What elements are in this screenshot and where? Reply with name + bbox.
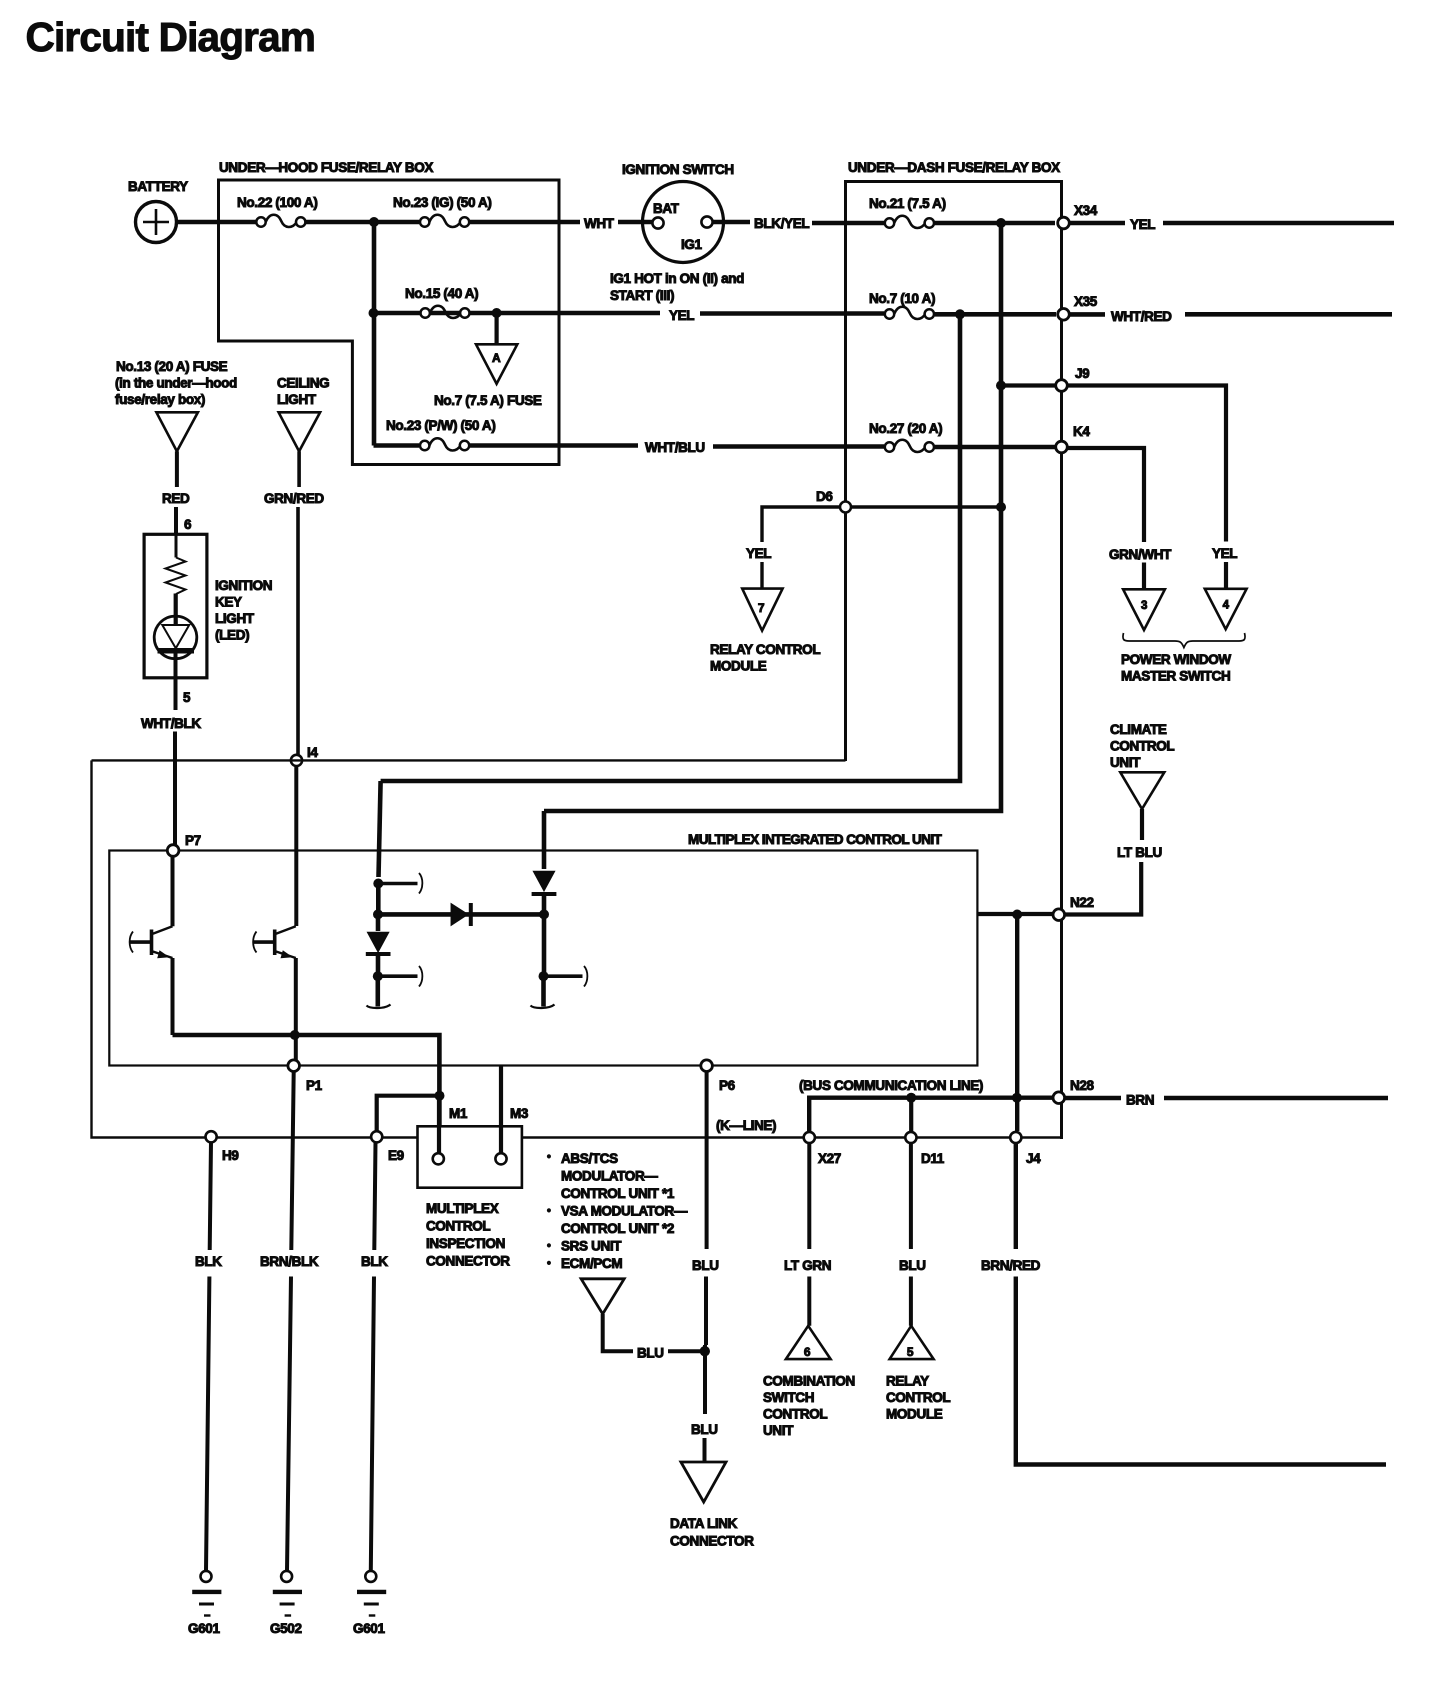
WHT/RED wire	[1070, 312, 1106, 317]
internal stub column from line B	[531, 811, 588, 1008]
wire D11 drop	[909, 1098, 913, 1131]
transistor Q2	[253, 926, 296, 1060]
svg-text:UNDER—DASH FUSE/RELAY BOX: UNDER—DASH FUSE/RELAY BOX	[848, 160, 1060, 175]
LED	[154, 594, 197, 659]
multiplex control inspection connector box	[418, 1126, 522, 1187]
I4 row wire	[92, 759, 846, 761]
svg-text:BLU: BLU	[691, 1422, 718, 1437]
fuse No.7 (10 A)	[885, 307, 934, 319]
svg-text:CONNECTOR: CONNECTOR	[426, 1254, 510, 1269]
node I4	[291, 755, 302, 766]
under-dash internal vertical from No.21 junction (line B)	[544, 223, 1001, 811]
wire X27 to triangle 6	[807, 1143, 811, 1326]
P6 / K-line vertical wire	[704, 1072, 709, 1346]
junction bus/D11	[906, 1093, 916, 1103]
M1 pin wire	[437, 1096, 441, 1153]
LT BLU wire climate to N22	[1140, 809, 1144, 840]
svg-text:YEL: YEL	[746, 546, 771, 561]
wire battery to fuse No.22	[177, 220, 256, 225]
junction No.15 left	[369, 308, 379, 318]
svg-text:P1: P1	[306, 1078, 323, 1093]
svg-text:MULTIPLEX: MULTIPLEX	[426, 1201, 499, 1216]
svg-text:BLU: BLU	[899, 1258, 926, 1273]
wire M1 junction to E9	[377, 1096, 440, 1131]
svg-text:•: •	[547, 1205, 551, 1217]
connector triangle A	[476, 344, 517, 384]
K-line row wire	[522, 1136, 1062, 1138]
vertical bus in under-hood box	[372, 222, 377, 446]
svg-text:CONTROL: CONTROL	[1110, 739, 1174, 754]
ignition switch	[618, 182, 750, 263]
svg-text:POWER WINDOW: POWER WINDOW	[1121, 652, 1231, 667]
svg-text:CONTROL: CONTROL	[886, 1390, 950, 1405]
node D11	[905, 1132, 916, 1143]
wire I4 down to MICU	[294, 766, 298, 926]
svg-text:WHT/RED: WHT/RED	[1111, 309, 1172, 324]
wire P1 down to ground G502	[287, 1072, 294, 1572]
node N22	[1053, 909, 1065, 921]
internal stub column from line A	[366, 781, 423, 1008]
node P6	[701, 1060, 713, 1072]
svg-text:BLK/YEL: BLK/YEL	[754, 216, 809, 231]
svg-text:ABS/TCS: ABS/TCS	[561, 1151, 618, 1166]
svg-text:RELAY CONTROL: RELAY CONTROL	[710, 642, 820, 657]
svg-text:5: 5	[183, 690, 191, 705]
node X35	[1058, 309, 1070, 321]
svg-text:X35: X35	[1074, 294, 1098, 309]
svg-text:WHT/BLU: WHT/BLU	[645, 440, 705, 455]
junction J9 row	[996, 381, 1006, 391]
node D6	[840, 502, 851, 513]
node H9	[206, 1131, 217, 1142]
J9 row	[1001, 386, 1226, 542]
climate control unit triangle	[1120, 772, 1164, 809]
ground G601	[192, 1571, 221, 1616]
junction BLU	[700, 1346, 710, 1356]
svg-text:BATTERY: BATTERY	[128, 179, 188, 194]
junction on No.21 row	[996, 218, 1006, 228]
wire K4 to triangle 3	[1068, 448, 1145, 542]
svg-text:N22: N22	[1070, 895, 1094, 910]
svg-text:4: 4	[1223, 600, 1230, 612]
svg-text:LT GRN: LT GRN	[784, 1258, 831, 1273]
data link connector triangle	[681, 1462, 726, 1502]
svg-text:BRN: BRN	[1126, 1093, 1154, 1108]
svg-text:IG1: IG1	[681, 237, 703, 252]
wire H9 down to ground G601	[206, 1142, 211, 1571]
junction M1 branch	[435, 1091, 445, 1101]
connector triangle 4	[1205, 589, 1247, 629]
svg-text:RED: RED	[162, 491, 190, 506]
ECM triangle	[581, 1279, 624, 1314]
svg-text:M3: M3	[510, 1106, 529, 1121]
WHT/BLU row from No.23 P/W fuse	[374, 443, 420, 448]
svg-text:BRN/RED: BRN/RED	[981, 1258, 1041, 1273]
svg-text:BLU: BLU	[692, 1258, 719, 1273]
svg-text:No.22 (100 A): No.22 (100 A)	[237, 195, 317, 210]
node P1	[288, 1060, 300, 1072]
ground G502	[273, 1571, 302, 1616]
junction on No.7 row	[955, 309, 965, 319]
ABS/TCS list	[547, 1151, 688, 1271]
svg-text:CONTROL: CONTROL	[763, 1407, 827, 1422]
connector triangle 3	[1123, 589, 1165, 630]
ground G601 (E9)	[357, 1571, 386, 1616]
svg-text:No.7 (7.5 A) FUSE: No.7 (7.5 A) FUSE	[434, 393, 542, 408]
svg-text:VSA MODULATOR—: VSA MODULATOR—	[561, 1204, 688, 1219]
svg-text:IGNITION: IGNITION	[215, 578, 272, 593]
wire fuse21 to X34	[935, 221, 1055, 226]
wire fuse7 to X35	[935, 312, 1056, 317]
svg-text:WHT/BLK: WHT/BLK	[141, 716, 201, 731]
svg-text:•: •	[547, 1151, 551, 1163]
multiplex integrated control unit box	[109, 851, 977, 1066]
ceiling light triangle	[279, 412, 321, 451]
svg-text:YEL: YEL	[1212, 546, 1237, 561]
fuse No.27 (20 A)	[885, 440, 934, 452]
No.13 fuse triangle	[156, 412, 198, 451]
node J9	[1056, 380, 1068, 392]
svg-text:D11: D11	[921, 1151, 945, 1166]
svg-text:SRS UNIT: SRS UNIT	[561, 1239, 622, 1254]
svg-text:YEL: YEL	[669, 308, 694, 323]
wire MICU to N22	[977, 912, 1053, 916]
internal diode row	[378, 903, 544, 926]
svg-text:GRN/RED: GRN/RED	[264, 491, 324, 506]
BLU wire from ECM triangle	[603, 1314, 633, 1351]
svg-text:No.15 (40 A): No.15 (40 A)	[405, 286, 478, 301]
svg-text:(K—LINE): (K—LINE)	[716, 1118, 776, 1133]
svg-text:A: A	[492, 351, 501, 365]
svg-text:DATA LINK: DATA LINK	[670, 1516, 738, 1531]
YEL row from No.15 fuse	[497, 311, 660, 316]
svg-text:INSPECTION: INSPECTION	[426, 1236, 505, 1251]
svg-text:MASTER SWITCH: MASTER SWITCH	[1121, 669, 1230, 684]
svg-text:GRN/WHT: GRN/WHT	[1109, 547, 1172, 562]
wire fuse23 to WHT label	[470, 220, 580, 225]
node P7	[167, 845, 179, 857]
wire junction to triangle A	[495, 313, 499, 344]
vertical N22 to J4	[1015, 915, 1019, 1132]
wire BLK/YEL to fuse No.21	[812, 221, 884, 226]
svg-text:BLU: BLU	[637, 1346, 664, 1361]
svg-text:BLK: BLK	[195, 1254, 222, 1269]
transistor Q1	[129, 856, 172, 1035]
svg-text:BAT: BAT	[653, 201, 680, 216]
emitter bus wire	[173, 1035, 440, 1153]
wire J4 to bottom right	[1016, 1143, 1386, 1465]
svg-text:MODULE: MODULE	[886, 1407, 943, 1422]
svg-text:UNIT: UNIT	[1110, 755, 1141, 770]
wire D6 to relay control module triangle	[762, 507, 840, 542]
svg-text:LIGHT: LIGHT	[277, 392, 317, 407]
wire E9 down to ground G601b	[371, 1142, 376, 1571]
fuse No.21 (7.5 A)	[885, 216, 934, 228]
svg-text:•: •	[547, 1258, 551, 1270]
svg-text:P6: P6	[719, 1078, 736, 1093]
svg-text:RELAY: RELAY	[886, 1374, 929, 1389]
svg-text:G601: G601	[353, 1621, 385, 1636]
svg-text:E9: E9	[388, 1148, 404, 1163]
under-hood fuse/relay box	[219, 180, 560, 465]
svg-text:CLIMATE: CLIMATE	[1110, 722, 1167, 737]
svg-text:5: 5	[907, 1345, 914, 1359]
svg-text:(BUS COMMUNICATION LINE): (BUS COMMUNICATION LINE)	[799, 1078, 983, 1093]
battery	[136, 202, 177, 243]
under-dash fuse/relay box	[846, 182, 1062, 1140]
svg-text:CONTROL UNIT *1: CONTROL UNIT *1	[561, 1186, 675, 1201]
svg-text:SWITCH: SWITCH	[763, 1390, 814, 1405]
ignition key light box	[144, 534, 207, 678]
svg-text:D6: D6	[816, 489, 833, 504]
svg-text:LT BLU: LT BLU	[1117, 845, 1162, 860]
svg-text:KEY: KEY	[215, 595, 242, 610]
wire D6 to junction right	[851, 505, 1001, 508]
junction main row	[369, 217, 379, 227]
M3 pin wire	[499, 1066, 503, 1153]
svg-text:J9: J9	[1075, 366, 1089, 381]
svg-text:CONNECTOR: CONNECTOR	[670, 1534, 754, 1549]
node J4	[1010, 1132, 1021, 1143]
svg-text:X27: X27	[818, 1151, 841, 1166]
svg-text:No.13 (20 A) FUSE: No.13 (20 A) FUSE	[116, 359, 228, 374]
svg-text:ECM/PCM: ECM/PCM	[561, 1256, 622, 1271]
svg-text:6: 6	[184, 517, 192, 532]
svg-text:CONTROL UNIT *2: CONTROL UNIT *2	[561, 1221, 674, 1236]
svg-text:J4: J4	[1026, 1151, 1041, 1166]
wire D11 to triangle 5	[909, 1143, 913, 1326]
svg-text:•: •	[547, 1240, 551, 1252]
svg-text:3: 3	[1141, 600, 1147, 612]
svg-text:BRN/BLK: BRN/BLK	[260, 1254, 319, 1269]
wire fuse22 to fuse23	[306, 220, 419, 225]
M3 pin	[495, 1153, 506, 1164]
svg-text:P7: P7	[185, 833, 201, 848]
svg-text:CEILING: CEILING	[277, 376, 329, 391]
svg-text:MULTIPLEX INTEGRATED CONTROL U: MULTIPLEX INTEGRATED CONTROL UNIT	[688, 832, 943, 847]
junction bus/P1	[290, 1030, 300, 1040]
svg-text:6: 6	[804, 1345, 811, 1359]
svg-text:MODULATOR—: MODULATOR—	[561, 1169, 658, 1184]
svg-text:N28: N28	[1070, 1078, 1095, 1093]
fuse No.23 (IG) (50 A)	[420, 215, 469, 227]
fuse No.22 (100 A)	[255, 215, 305, 227]
svg-text:Circuit Diagram: Circuit Diagram	[26, 14, 316, 60]
connector triangle 5	[890, 1326, 934, 1359]
node E9	[371, 1131, 382, 1142]
node X27	[804, 1132, 815, 1143]
No.15 (40 A) row	[374, 311, 498, 316]
junction D6 row	[996, 502, 1006, 512]
svg-text:UNDER—HOOD FUSE/RELAY BOX: UNDER—HOOD FUSE/RELAY BOX	[219, 160, 433, 175]
BRN wire	[1065, 1096, 1122, 1100]
junction N22 row	[1012, 910, 1022, 920]
svg-text:IGNITION SWITCH: IGNITION SWITCH	[622, 162, 734, 177]
svg-text:BLK: BLK	[361, 1254, 388, 1269]
svg-text:START (III): START (III)	[610, 288, 674, 303]
fuse No.15 (40 A)	[421, 306, 470, 318]
svg-text:X34: X34	[1074, 203, 1098, 218]
svg-text:UNIT: UNIT	[763, 1423, 794, 1438]
svg-text:COMBINATION: COMBINATION	[763, 1374, 855, 1389]
svg-text:7: 7	[758, 601, 765, 615]
svg-text:K4: K4	[1073, 424, 1090, 439]
wire to WHT/BLU label	[470, 443, 638, 448]
svg-text:No.21 (7.5 A): No.21 (7.5 A)	[869, 196, 946, 211]
svg-text:G601: G601	[188, 1621, 220, 1636]
junction bus crossing	[1012, 1093, 1022, 1103]
svg-text:No.7 (10 A): No.7 (10 A)	[869, 291, 935, 306]
svg-text:WHT: WHT	[584, 216, 615, 231]
fuse No.23 (P/W) (50 A)	[420, 438, 469, 450]
brace under triangles 3 and 4	[1123, 633, 1245, 648]
svg-text:(LED): (LED)	[215, 628, 249, 643]
svg-text:G502: G502	[270, 1621, 302, 1636]
svg-text:I4: I4	[307, 745, 318, 760]
RED wire	[175, 451, 179, 487]
svg-text:No.23 (P/W) (50 A): No.23 (P/W) (50 A)	[386, 418, 495, 433]
svg-text:YEL: YEL	[1130, 217, 1155, 232]
YEL wire right of X34	[1070, 221, 1126, 226]
bus communication wire	[809, 1098, 1053, 1132]
svg-text:No.23 (IG) (50 A): No.23 (IG) (50 A)	[393, 195, 492, 210]
GRN/RED wire	[297, 451, 301, 487]
svg-text:fuse/relay box): fuse/relay box)	[115, 392, 205, 407]
connector triangle 6	[786, 1326, 831, 1359]
svg-text:MODULE: MODULE	[710, 659, 767, 674]
left frame wire	[92, 760, 418, 1137]
svg-text:No.27 (20 A): No.27 (20 A)	[869, 421, 942, 436]
M1 pin	[433, 1153, 444, 1164]
svg-text:IG1 HOT in ON (II) and: IG1 HOT in ON (II) and	[610, 271, 744, 286]
svg-text:(in the under—hood: (in the under—hood	[115, 376, 237, 391]
node K4	[1056, 441, 1068, 453]
wire fuse27 to K4	[935, 445, 1055, 450]
wire LED to box bottom	[174, 651, 178, 710]
svg-text:CONTROL: CONTROL	[426, 1219, 490, 1234]
svg-text:H9: H9	[222, 1148, 239, 1163]
node X34	[1058, 217, 1070, 229]
svg-text:LIGHT: LIGHT	[215, 611, 255, 626]
resistor	[175, 534, 178, 558]
svg-text:M1: M1	[449, 1106, 468, 1121]
node N28	[1053, 1092, 1065, 1104]
under-dash internal vertical from No.7 junction (line A)	[381, 314, 960, 781]
junction No.15 right	[492, 308, 502, 318]
connector triangle 7	[742, 589, 782, 631]
